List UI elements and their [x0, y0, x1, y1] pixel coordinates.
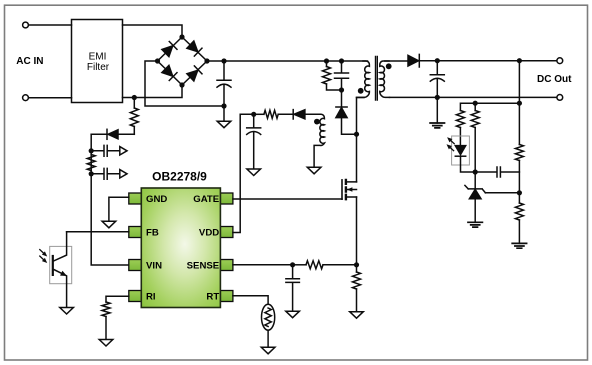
resistor R-RI — [102, 302, 110, 317]
wire source — [356, 197, 358, 265]
terminal AC IN neutral — [23, 95, 29, 101]
svg-text:OB2278/9: OB2278/9 — [152, 170, 207, 184]
capacitor C-bulk — [217, 61, 231, 106]
ground primary (C-sense) — [286, 311, 300, 318]
resistor R-start2 — [87, 155, 95, 171]
pin 2 FB pad — [129, 227, 142, 238]
svg-text:VIN: VIN — [146, 260, 162, 271]
wire bridge plus to bulk cap node — [207, 60, 224, 62]
wire FB pin — [67, 231, 129, 233]
wire drain — [357, 98, 365, 182]
node bridge top — [179, 34, 184, 39]
wire VDD pin riser — [233, 114, 254, 232]
node startup tap — [132, 95, 137, 100]
node LED parallel tap — [473, 101, 478, 106]
ground primary (RT) — [261, 347, 275, 354]
node secondary phase dot — [386, 63, 392, 69]
wire GND pin to ground — [109, 197, 129, 221]
capacitor C-fb — [475, 167, 519, 177]
wire RI pin — [106, 296, 129, 302]
ground earth (zener) — [468, 222, 482, 227]
zener diode ZD1 — [474, 172, 476, 188]
capacitor C-snubber — [335, 61, 349, 90]
ground primary (RI) — [99, 340, 113, 347]
terminal DC Out minus — [557, 95, 563, 101]
node VDD filter lower — [89, 171, 94, 176]
svg-text:RT: RT — [206, 291, 219, 302]
node sense cap — [290, 262, 295, 267]
pin 4 RI pad — [129, 291, 142, 302]
svg-text:AC IN: AC IN — [16, 56, 43, 67]
ground earth (C-out) — [430, 123, 444, 128]
node snubber R top — [324, 58, 329, 63]
node aux phase dot — [314, 119, 320, 125]
ground primary (aux winding) — [307, 167, 321, 174]
LED opto diode — [452, 136, 470, 165]
wire AC bottom to EMI filter — [29, 97, 72, 99]
node primary phase dot — [358, 88, 364, 94]
capacitor C-sense — [286, 265, 300, 311]
diode D-out — [408, 55, 419, 66]
wire zener to divider — [485, 192, 519, 194]
wire secondary top to output diode — [385, 60, 408, 62]
node LED feed tap — [517, 101, 522, 106]
op-amp U1 OB2278/9 controller body — [141, 188, 220, 308]
resistor R-startup — [133, 98, 135, 109]
ground sideways (C-start2) — [120, 170, 127, 178]
resistor R-sense-filter — [293, 264, 306, 266]
transistor Q1 MOSFET gate — [341, 180, 343, 199]
capacitor C-vdd — [247, 114, 261, 169]
wire startup vertical to VIN — [91, 134, 129, 265]
node sense junction — [354, 262, 359, 267]
node aux VDD junction — [251, 112, 256, 117]
node feedback branch top — [517, 58, 522, 63]
wire GATE pin to MOSFET — [233, 198, 342, 200]
node zener top — [473, 169, 478, 174]
terminal DC Out plus — [557, 58, 563, 64]
transistor Q-opto phototransistor — [50, 246, 72, 283]
wire output cap to earth — [436, 97, 438, 123]
capacitor C-start1 — [91, 145, 119, 156]
resistor R-sense — [356, 265, 358, 272]
wire SENSE pin — [233, 264, 293, 266]
resistor R-snubber — [326, 61, 328, 67]
svg-text:Filter: Filter — [87, 62, 110, 73]
ground earth (divider) — [512, 243, 526, 248]
node bridge bottom — [179, 82, 184, 87]
terminal AC IN line — [23, 22, 29, 28]
transistor Q1 MOSFET channel — [345, 180, 347, 199]
transformer core — [376, 57, 378, 101]
svg-text:GATE: GATE — [193, 194, 220, 205]
bridge diode D-BL — [162, 65, 177, 80]
ground primary (C-vdd) — [247, 169, 261, 176]
wire DC bus top rail — [224, 60, 368, 62]
wire EMI output bottom to bridge — [123, 85, 183, 98]
wire AC top to EMI filter — [29, 24, 72, 26]
pin 1 GND pad — [129, 193, 142, 204]
ground sideways (C-start1) — [120, 147, 127, 155]
diode D-clamp — [341, 90, 343, 107]
node bridge right — [204, 58, 209, 63]
capacitor C-out — [430, 61, 444, 98]
wire feedback branch vertical — [518, 61, 520, 145]
node bulk cap top — [221, 58, 226, 63]
opto light arrows out — [445, 136, 454, 151]
node divider mid — [517, 190, 522, 195]
node output cap top — [435, 58, 440, 63]
diode D-startup — [118, 133, 134, 135]
opto light arrows in — [40, 250, 49, 265]
svg-text:RI: RI — [146, 291, 156, 302]
thermistor RT — [262, 304, 275, 330]
node snubber bottom — [339, 87, 344, 92]
resistor R-div1 — [515, 145, 523, 161]
resistor R-led-parallel — [474, 103, 476, 110]
node snubber C top — [339, 58, 344, 63]
node VDD filter upper — [89, 148, 94, 153]
resistor R-led — [456, 111, 464, 128]
node bulk cap bottom — [221, 103, 226, 108]
bridge diode D-BR — [187, 66, 202, 81]
wire EMI output top to bridge — [123, 25, 183, 37]
wire output return rail — [390, 96, 557, 98]
svg-text:VDD: VDD — [199, 227, 219, 238]
ground primary (GND pin) — [102, 221, 116, 228]
ground primary (R-sense) — [350, 312, 364, 319]
node bridge left — [155, 58, 160, 63]
diode D-aux — [254, 113, 264, 115]
transformer T1 secondary winding — [380, 61, 390, 97]
node output cap bottom — [435, 95, 440, 100]
pin 3 VIN pad — [129, 260, 142, 271]
capacitor C-start2 — [91, 168, 119, 179]
pin 7 VDD pad — [220, 227, 233, 238]
transformer T1 aux winding — [305, 114, 325, 167]
wire LED feed — [460, 103, 519, 110]
resistor R-div2 — [515, 203, 523, 220]
ground primary (bulk cap) — [217, 121, 231, 128]
wire bridge minus to ground rail — [145, 61, 224, 106]
svg-text:DC Out: DC Out — [537, 74, 572, 85]
node clamp to drain — [354, 132, 359, 137]
ground primary (opto emitter) — [60, 308, 74, 315]
bridge rectifier BR1 diamond — [158, 37, 208, 85]
wire RT pin — [233, 296, 268, 305]
pin 5 RT pad — [220, 291, 233, 302]
transistor Q1 body arrow — [347, 187, 352, 192]
pin 8 GATE pad — [220, 193, 233, 204]
svg-text:FB: FB — [146, 227, 159, 238]
svg-text:GND: GND — [146, 194, 167, 205]
svg-text:SENSE: SENSE — [187, 260, 220, 271]
wire bulk cap to ground — [223, 106, 225, 121]
pin 6 SENSE pad — [220, 260, 233, 271]
bridge diode D-TR — [187, 41, 202, 56]
transformer T1 primary winding — [357, 61, 370, 97]
EMI filter block — [72, 20, 123, 103]
bridge diode D-TL — [162, 42, 177, 57]
